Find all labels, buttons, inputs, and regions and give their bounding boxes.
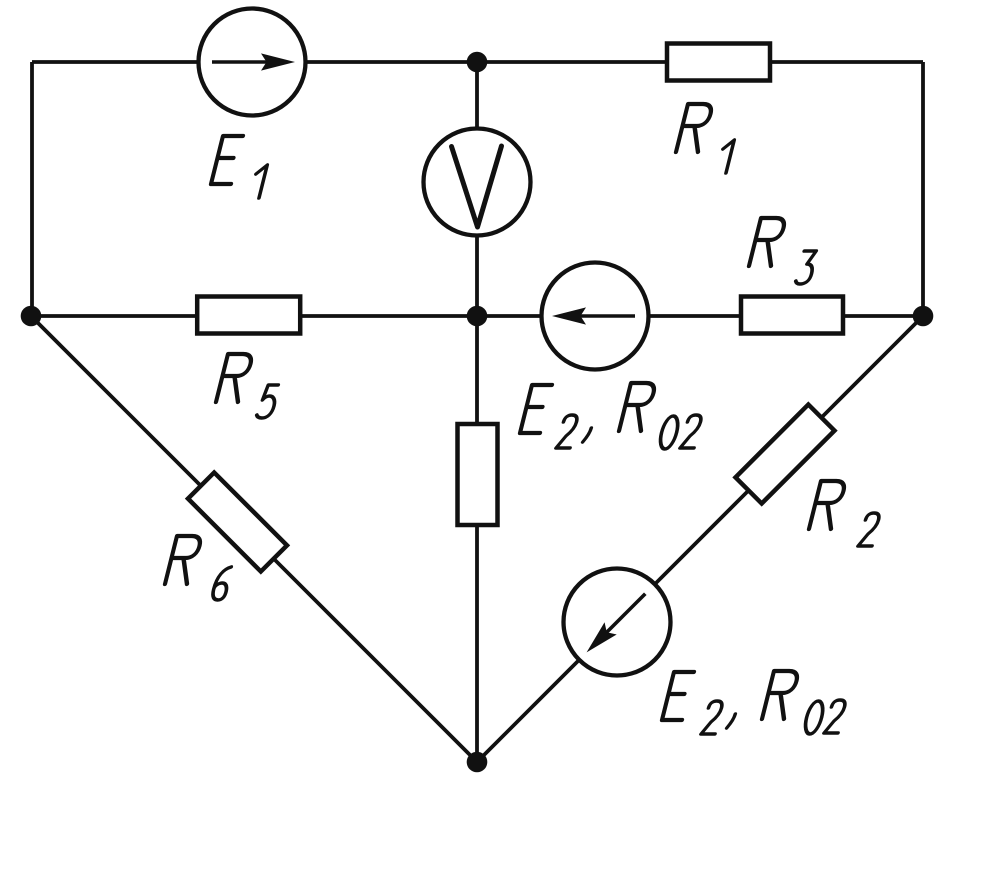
wire left diagonal — [31, 316, 477, 762]
wire middle rail — [31, 314, 923, 318]
resistor R5 — [197, 297, 300, 334]
voltmeter V — [424, 129, 531, 236]
node right — [913, 306, 934, 327]
node center — [467, 306, 488, 327]
label R2 — [809, 481, 880, 546]
label R1 — [676, 104, 734, 173]
label E2,R02 (middle source) — [520, 383, 702, 449]
label R5 — [216, 354, 279, 418]
wire right drop — [921, 62, 925, 316]
EMF source E2,R02 (middle) — [542, 263, 649, 370]
EMF source E2,R02 (lower) — [564, 569, 671, 676]
resistor R1 — [667, 44, 770, 81]
resistor R6 — [188, 473, 287, 572]
label R6 — [165, 536, 232, 600]
label E1 — [211, 136, 267, 198]
resistor R2 — [736, 405, 835, 504]
label R3 — [749, 218, 817, 284]
wire top rail — [32, 60, 923, 64]
wire left drop — [30, 62, 34, 316]
node left — [21, 306, 42, 327]
wire center vertical — [475, 62, 479, 762]
resistor vertical (center branch) — [458, 424, 498, 525]
label E2,R02 (lower source) — [662, 671, 846, 734]
node bottom — [467, 752, 488, 773]
EMF source E1 — [199, 9, 306, 116]
wire right diagonal — [477, 316, 923, 762]
resistor R3 — [741, 297, 843, 334]
node top — [467, 52, 488, 73]
